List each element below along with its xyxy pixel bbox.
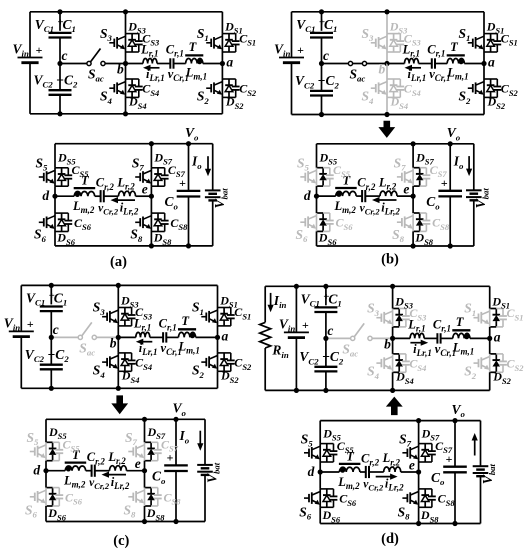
svg-text:a: a: [488, 55, 495, 70]
node junction leg-e bottom rail (d): [416, 521, 421, 526]
wire IGBT-side vertical (inactive) S7 (b): [412, 168, 414, 186]
wire cell main segment S2 (c): [217, 353, 219, 371]
wire jog through diode D_S1 (d): [490, 308, 497, 310]
diode D_S3 (d): [398, 309, 400, 315]
wire e-S8 segment (a): [150, 196, 152, 213]
wire C2 branch lower (c): [50, 369, 52, 388]
wire cell main segment S8 (a): [150, 213, 152, 231]
wire C_r1 to transformer (c): [166, 336, 178, 338]
node junction Co top rail (d): [452, 418, 457, 423]
transistor S7 (IGBT, inactive) (c): [128, 451, 133, 453]
wire switch S_ac to node b (a): [105, 63, 125, 65]
transistor S3 (IGBT) (c): [102, 316, 107, 318]
wire S5-d segment (b): [316, 186, 318, 196]
node a (b): [481, 61, 486, 66]
wire leg S1 upper (d): [489, 286, 491, 308]
current arrow i_Lr2 (d): [376, 476, 392, 478]
wire jog through diode D_S2 (d): [490, 353, 497, 355]
wire cell main segment S7 (a): [150, 168, 152, 186]
svg-text:c: c: [327, 323, 333, 338]
wire V_in branch upper (b): [291, 12, 293, 58]
node d (a): [52, 194, 57, 199]
power flow arrow (b): [378, 121, 395, 138]
wire switch S_ac to node b (b): [367, 63, 387, 65]
wire IGBT-side vertical (inactive) S5 (b): [316, 168, 318, 186]
wire C1-c segment (b): [321, 38, 323, 64]
transistor S8 (IGBT) (d): [402, 497, 407, 499]
wire IGBT-side vertical (inactive) S4 (d): [392, 354, 394, 372]
switch S_ac (b): [348, 61, 352, 65]
wire V_bat branch upper (d): [480, 421, 482, 467]
transistor S7 (IGBT) (d): [402, 452, 407, 454]
wire cell main segment S5 (a): [54, 168, 56, 186]
node d (d): [318, 469, 323, 474]
diode D_S5 (d): [326, 444, 328, 450]
wire V_bat branch lower (c): [204, 475, 206, 521]
node b (b): [384, 61, 389, 66]
wire cell main segment S6 (a): [54, 213, 56, 231]
capacitor C2 (b): [310, 90, 333, 92]
capacitor C_r1 (a): [169, 58, 171, 68]
wire jog through diode D_S8 (b): [413, 212, 420, 214]
wire V_in branch upper (c): [20, 285, 22, 331]
capacitor C_S4 (c): [128, 359, 136, 361]
wire transformer to node a (a): [203, 63, 223, 65]
transistor S5 (IGBT) (a): [39, 176, 44, 178]
wire jog through diode D_S6 (c): [46, 487, 53, 489]
node junction C-branch bottom rail (d): [323, 388, 328, 393]
diode D_S1 (c): [223, 308, 225, 314]
capacitor C_r2 (d): [365, 466, 367, 478]
node junction leg-e top rail (b): [411, 141, 416, 146]
capacitor C_S1 (c): [227, 314, 235, 316]
capacitor C_S7 (c): [154, 449, 162, 451]
wire d-S6 segment (d): [319, 472, 321, 489]
wire Co branch upper (a): [188, 144, 190, 191]
wire IGBT-side vertical (inactive) S6 (c): [45, 488, 47, 506]
wire V_bat branch upper (a): [212, 144, 214, 191]
node junction Co bottom rail (a): [186, 243, 191, 248]
capacitor C_S8 (a): [161, 220, 169, 222]
wire leg S8 lower (b): [412, 231, 414, 246]
wire leg S7 upper (c): [144, 419, 146, 442]
inductor L_r1 (c): [136, 332, 150, 337]
transformer T / L_m2 winding (a): [74, 187, 96, 189]
wire Co branch upper (d): [454, 421, 456, 467]
wire V_in branch upper (d): [295, 286, 297, 332]
wire top rail (a) secondary: [55, 143, 213, 145]
wire leg S3-b segment (d): [392, 327, 394, 339]
wire L_r2 to node e (b): [397, 195, 413, 197]
svg-text:a: a: [222, 328, 229, 343]
capacitor C_S6 (a): [64, 220, 72, 222]
node a (d): [487, 336, 492, 341]
wire C_r1 to transformer (a): [174, 63, 186, 65]
wire snubber stubs C_S1 (d): [496, 308, 503, 310]
resistor R_in (d): [260, 322, 271, 348]
wire leg S3-b segment (c): [117, 326, 119, 338]
transistor S1 (IGBT) (c): [201, 316, 206, 318]
transistor S6 (IGBT) (d): [304, 497, 309, 499]
wire leg S2 lower (d): [489, 372, 491, 390]
transistor S4 (IGBT, inactive) (d): [376, 362, 381, 364]
diode D_S1 (b): [490, 34, 492, 40]
wire jog through diode D_S8 (c): [145, 487, 152, 489]
wire Co branch lower (b): [449, 196, 451, 246]
wire jog through diode D_S6 (b): [317, 212, 324, 214]
node c (a): [57, 61, 62, 66]
node junction C-branch top rail (b): [319, 9, 324, 14]
capacitor Co (a): [177, 190, 201, 192]
switch S_ac (a): [87, 61, 91, 65]
wire IGBT-side vertical (inactive) S5 (c): [45, 442, 47, 460]
transistor S1 (IGBT, inactive) (d): [474, 317, 479, 319]
current arrow output current (d): [474, 439, 476, 456]
wire c to switch S_ac (b): [322, 63, 349, 65]
capacitor C_S2 (c): [227, 359, 235, 361]
capacitor C_S2 (b): [493, 86, 501, 88]
wire cell main segment S4 (b): [386, 79, 388, 97]
wire C1 branch (d): [325, 286, 327, 305]
wire snubber loop S1 (b): [484, 33, 497, 35]
wire L_r1 to C_r1 (a): [157, 63, 170, 65]
diode D_S4 (a): [131, 79, 133, 85]
wire leg S1-a segment (c): [217, 326, 219, 338]
svg-text:b: b: [384, 336, 391, 351]
node c (c): [49, 335, 54, 340]
wire C1-c segment (d): [325, 312, 327, 338]
capacitor C_S7 (a): [161, 174, 169, 176]
wire S7-e segment (a): [150, 186, 152, 196]
wire cell main segment S2 (a): [221, 79, 223, 97]
node junction leg-e bottom rail (b): [411, 243, 416, 248]
wire R_in branch upper (d): [264, 286, 266, 322]
wire L_r1 to C_r1 (b): [419, 63, 432, 65]
wire switch S_ac to node b (d): [372, 337, 393, 339]
transformer T / L_m2 winding (c): [65, 461, 87, 463]
node junction leg-b top rail (b): [384, 9, 389, 14]
wire bottom rail (d) primary: [265, 389, 490, 391]
capacitor C_S3 (c): [128, 314, 136, 316]
wire transformer to node a (d): [470, 337, 490, 339]
capacitor C1 (b): [310, 32, 333, 34]
wire S5-d segment (a): [54, 186, 56, 196]
node b (a): [123, 61, 128, 66]
diode D_S8 (c): [150, 488, 152, 494]
wire a-S2 segment (d): [489, 338, 491, 354]
svg-text:d: d: [304, 188, 311, 203]
wire top rail (b) primary: [292, 11, 485, 13]
wire leg S1-a segment (b): [483, 52, 485, 64]
wire snubber stubs C_S2 (d): [496, 353, 503, 355]
wire snubber loop S4 (b): [387, 78, 400, 80]
capacitor C_S7 (b): [423, 174, 431, 176]
wire leg S3-b segment (b): [386, 52, 388, 64]
wire V_in branch lower (a): [29, 63, 31, 114]
capacitor C_S1 (d): [499, 315, 507, 317]
wire snubber loop S2 (c): [218, 352, 231, 354]
diode D_S7 (a): [157, 168, 159, 174]
wire V_in branch lower (b): [291, 63, 293, 115]
node b (c): [116, 335, 121, 340]
wire snubber loop S3 (b): [387, 33, 400, 35]
current arrow I_o (a): [207, 156, 209, 170]
voltage source V_in (c): [9, 330, 34, 332]
wire leg S1 upper (a): [221, 12, 223, 34]
node junction Co bottom rail (d): [452, 521, 457, 526]
node c (b): [319, 61, 324, 66]
node e (c): [142, 468, 147, 473]
capacitor C_S3 (a): [135, 40, 143, 42]
capacitor C_S1 (a): [232, 40, 240, 42]
wire V_bat branch lower (a): [212, 201, 214, 246]
wire leg S2 lower (b): [483, 97, 485, 114]
wire V_bat branch upper (b): [473, 144, 475, 191]
diode D_S6 (d): [326, 489, 328, 495]
wire c-C2 segment (c): [50, 337, 52, 364]
wire leg S1-a segment (d): [489, 327, 491, 339]
diode D_S6 (a): [61, 213, 63, 219]
transistor S2 (IGBT) (c): [201, 361, 206, 363]
wire transformer to C_r2 (c): [86, 470, 92, 472]
wire C_r2 to L_r2 (a): [104, 195, 119, 197]
wire leg S4 lower (a): [125, 97, 127, 113]
wire d-S6 segment (b): [316, 196, 318, 213]
diode D_S2 (d): [495, 354, 497, 360]
wire e-S8 segment (b): [412, 196, 414, 213]
wire leg S8 lower (d): [418, 507, 420, 523]
capacitor C_S4 (b): [396, 86, 404, 88]
wire V_bat branch upper (c): [204, 419, 206, 465]
power flow arrow (d): [386, 397, 403, 416]
inductor L_r1 (b): [405, 58, 419, 63]
wire C2 branch lower (b): [321, 96, 323, 115]
wire leg S8 lower (a): [150, 232, 152, 246]
svg-text:c: c: [53, 322, 59, 337]
wire L_r1 to C_r1 (d): [424, 337, 437, 339]
capacitor C_S6 (d): [330, 495, 338, 497]
node junction leg-b bottom rail (b): [384, 112, 389, 117]
wire IGBT-side vertical (inactive) S2 (d): [489, 354, 491, 372]
wire leg S1 upper (b): [483, 12, 485, 34]
capacitor C_S6 (b): [326, 220, 334, 222]
wire jog through diode D_S4 (d): [393, 353, 400, 355]
capacitor C_S2 (d): [499, 360, 507, 362]
node e (b): [411, 194, 416, 199]
capacitor C_S7 (d): [428, 450, 436, 452]
wire d to transformer (b): [317, 195, 336, 197]
wire leg S3 upper (c): [117, 285, 119, 307]
wire snubber stubs C_S8 (c): [151, 487, 158, 489]
svg-text:b: b: [379, 62, 386, 77]
wire C1-c segment (c): [50, 311, 52, 337]
wire transformer to node a (c): [196, 336, 218, 338]
wire b-S4 segment (d): [392, 338, 394, 354]
wire cell main segment S3 (b): [386, 34, 388, 52]
inductor L_r2 (b): [380, 191, 397, 196]
node junction leg-e bottom rail (a): [149, 243, 154, 248]
wire L_r2 to node e (a): [136, 195, 152, 197]
transistor S1 (IGBT) (b): [468, 42, 473, 44]
node junction Co top rail (a): [186, 141, 191, 146]
transformer T / L_m1 winding (d): [452, 329, 470, 331]
wire C1-c segment (a): [59, 38, 61, 64]
battery V_bat (b): [466, 189, 482, 191]
capacitor C_S2 (a): [232, 86, 240, 88]
wire c-C2 segment (a): [59, 64, 61, 91]
capacitor C_S5 (d): [330, 450, 338, 452]
wire jog through diode D_S3 (d): [393, 308, 400, 310]
wire snubber loop S7 (a): [151, 167, 164, 169]
wire jog through diode D_S5 (b): [317, 167, 324, 169]
battery V_bat (d): [473, 465, 489, 467]
wire Co branch upper (b): [449, 144, 451, 191]
diode D_S8 (b): [419, 213, 421, 219]
transistor S1 (IGBT) (a): [206, 42, 211, 44]
diode D_S7 (c): [150, 442, 152, 448]
node b (d): [390, 336, 395, 341]
wire b to L_r1 (c): [118, 336, 136, 338]
node e (d): [416, 469, 421, 474]
transistor S6 (IGBT, inactive) (c): [30, 496, 35, 498]
wire L_r2 to node e (d): [401, 471, 419, 473]
transistor S8 (IGBT, inactive) (c): [128, 496, 133, 498]
diode D_S4 (d): [398, 354, 400, 360]
wire C_r1 to transformer (d): [441, 337, 453, 339]
wire d-S6 segment (c): [45, 471, 47, 488]
wire jog through diode D_S7 (c): [145, 441, 152, 443]
wire snubber stubs C_S4 (d): [399, 353, 406, 355]
wire cell main segment S1 (a): [221, 34, 223, 52]
wire top rail (a) primary: [30, 11, 222, 13]
diode D_S5 (c): [52, 442, 54, 448]
transistor S8 (IGBT, inactive) (b): [397, 221, 402, 223]
current arrow I_o (c): [199, 431, 201, 445]
wire leg S4 lower (d): [392, 372, 394, 390]
capacitor Co (b): [438, 190, 462, 192]
wire S7-e segment (c): [144, 461, 146, 471]
node junction C-branch top rail (d): [323, 284, 328, 289]
wire C1 branch (a): [59, 12, 61, 31]
current arrow i_Lr1 (c): [142, 341, 153, 343]
wire C1 branch (c): [50, 285, 52, 304]
transistor S6 (IGBT) (a): [39, 221, 44, 223]
wire IGBT-side vertical (inactive) S1 (d): [489, 309, 491, 327]
capacitor C_S4 (a): [135, 86, 143, 88]
node junction Co top rail (c): [173, 417, 178, 422]
wire V_in branch lower (c): [20, 337, 22, 389]
wire C2 branch lower (a): [59, 95, 61, 114]
wire snubber loop S5 (d): [320, 443, 333, 445]
wire bottom rail (c) primary: [21, 387, 217, 389]
svg-text:b: b: [110, 335, 117, 350]
svg-text:a: a: [226, 55, 233, 70]
wire transformer to node a (b): [464, 63, 484, 65]
wire C_r2 to L_r2 (d): [369, 471, 384, 473]
node junction C-branch top rail (c): [49, 283, 54, 288]
diode D_S4 (c): [124, 353, 126, 359]
wire V_in branch lower (d): [295, 338, 297, 391]
wire cell main segment S7 (d): [418, 444, 420, 462]
inductor L_r1 (d): [410, 333, 424, 338]
wire c-C2 segment (d): [325, 338, 327, 366]
capacitor C_r1 (c): [162, 332, 164, 342]
wire transformer to C_r2 (a): [95, 195, 101, 197]
svg-text:b: b: [117, 62, 124, 77]
wire jog through diode D_S7 (b): [413, 167, 420, 169]
wire d-S6 segment (a): [54, 196, 56, 213]
node d (c): [43, 468, 48, 473]
wire e-S8 segment (c): [144, 471, 146, 488]
svg-text:c: c: [323, 48, 329, 63]
wire transformer to C_r2 (b): [356, 195, 362, 197]
current arrow i_Lr2 (a): [117, 199, 136, 201]
capacitor C_S8 (c): [154, 494, 162, 496]
voltage source V_in (d): [284, 331, 309, 333]
transistor S3 (IGBT) (a): [109, 42, 114, 44]
wire L_r2 to node e (c): [127, 470, 145, 472]
svg-text:+: +: [27, 317, 34, 331]
current arrow i_Lr1 (d): [410, 342, 422, 344]
wire leg S6 lower (c): [45, 506, 47, 522]
wire bottom rail (b) primary: [292, 114, 485, 116]
wire transformer to C_r2 (d): [360, 471, 366, 473]
wire Co branch lower (c): [175, 471, 177, 522]
transistor S2 (IGBT) (b): [468, 87, 473, 89]
wire leg S3 upper (b): [386, 12, 388, 34]
wire leg S5 upper (b): [316, 144, 318, 168]
wire snubber loop S8 (a): [151, 212, 164, 214]
svg-text:e: e: [135, 456, 141, 471]
battery V_bat (a): [205, 189, 221, 191]
diode D_S2 (a): [228, 79, 230, 85]
wire c to switch S_ac (c): [51, 336, 78, 338]
current arrow I_o (b): [468, 156, 470, 170]
wire C_r2 to L_r2 (c): [95, 470, 110, 472]
node junction V_in bottom rail (d): [294, 388, 299, 393]
wire cell main segment S4 (a): [125, 79, 127, 97]
transistor S2 (IGBT) (a): [206, 87, 211, 89]
diode D_S2 (c): [223, 353, 225, 359]
capacitor C_r2 (a): [100, 190, 102, 202]
wire snubber stubs C_S5 (b): [323, 167, 330, 169]
diode D_S3 (a): [131, 34, 133, 40]
wire V_bat branch lower (d): [480, 477, 482, 524]
wire snubber stubs C_S5 (c): [53, 441, 60, 443]
node junction C-branch top rail (a): [57, 9, 62, 14]
transistor S5 (IGBT, inactive) (b): [300, 176, 305, 178]
transformer T / L_m1 winding (a): [185, 54, 203, 56]
node junction V_in top rail (d): [294, 284, 299, 289]
wire b to L_r1 (a): [126, 63, 144, 65]
svg-text:(b): (b): [381, 252, 399, 268]
wire d to transformer (a): [55, 195, 74, 197]
inductor L_r2 (c): [110, 466, 127, 471]
wire leg S4 lower (c): [117, 371, 119, 388]
wire snubber loop S4 (c): [118, 352, 131, 354]
wire a-S2 segment (a): [221, 64, 223, 80]
diode D_S8 (d): [424, 489, 426, 495]
wire c-C2 segment (b): [321, 64, 323, 91]
wire c to switch S_ac (a): [60, 63, 87, 65]
wire leg S1 upper (c): [217, 285, 219, 307]
svg-text:(c): (c): [113, 533, 129, 549]
wire R_in branch lower (d): [264, 348, 266, 390]
current arrow i_Lr2 (b): [378, 199, 397, 201]
wire S5-d segment (d): [319, 462, 321, 472]
current arrow I_in (d): [270, 293, 272, 306]
wire leg S6 lower (b): [316, 231, 318, 246]
